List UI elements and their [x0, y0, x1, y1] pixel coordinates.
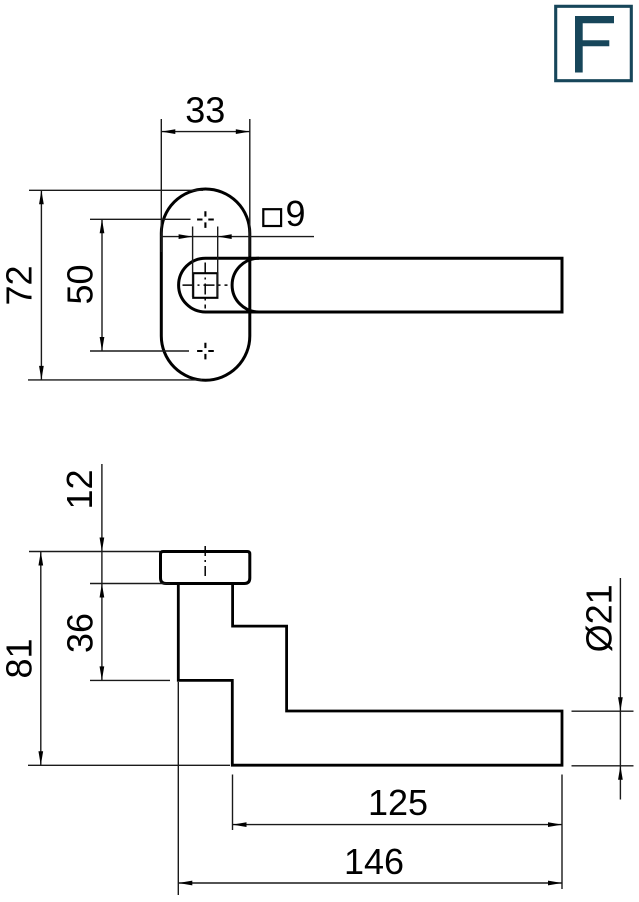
svg-text:36: 36 — [60, 613, 101, 653]
svg-text:125: 125 — [368, 782, 428, 823]
svg-text:81: 81 — [0, 638, 39, 678]
svg-text:72: 72 — [0, 265, 40, 305]
svg-text:33: 33 — [185, 90, 225, 131]
svg-text:146: 146 — [344, 841, 404, 882]
svg-text:Ø21: Ø21 — [579, 584, 620, 652]
svg-text:50: 50 — [60, 264, 101, 304]
svg-text:9: 9 — [286, 193, 306, 234]
svg-text:12: 12 — [59, 469, 100, 509]
